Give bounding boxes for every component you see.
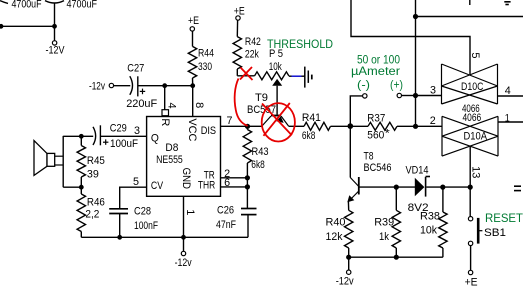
node [245, 184, 250, 189]
wire [236, 20, 238, 36]
node [181, 235, 186, 240]
wiper arrow of P5 [272, 79, 282, 115]
wire (top rail) [416, 16, 523, 18]
wire [289, 125, 305, 127]
svg-text:D10A: D10A [464, 130, 488, 142]
wire [470, 246, 472, 271]
svg-text:4700uF: 4700uF [67, 0, 98, 10]
svg-text:C29: C29 [110, 123, 127, 135]
push button SB1 [468, 217, 482, 246]
terminal +E [190, 27, 194, 31]
resistor R44 [188, 46, 196, 78]
svg-text:R44: R44 [198, 47, 214, 59]
svg-text:560: 560 [367, 130, 384, 142]
wire [331, 125, 351, 127]
node [468, 185, 473, 190]
resistor R39 [392, 187, 400, 257]
wire [402, 95, 416, 97]
wire [114, 85, 131, 87]
terminal -12v [181, 251, 185, 255]
wire (bottom right rail) [349, 256, 443, 258]
resistor R41 [304, 122, 331, 130]
resistor R40 [345, 210, 353, 257]
wire (pin 5) [120, 187, 147, 208]
svg-text:(-): (-) [357, 77, 370, 91]
svg-text:12k: 12k [326, 231, 343, 243]
svg-text:22k: 22k [245, 49, 259, 61]
svg-text:NE555: NE555 [156, 154, 183, 166]
resistor R45 [77, 136, 85, 187]
svg-text:10k: 10k [269, 61, 282, 73]
red X over T9 [262, 103, 292, 136]
svg-text:-12v: -12v [336, 276, 354, 288]
svg-text:-12V: -12V [46, 45, 66, 57]
wire (vertical from top) [415, 0, 417, 126]
svg-text:+E: +E [465, 276, 478, 288]
svg-text:T8: T8 [364, 150, 374, 162]
wire [348, 257, 350, 270]
resistor R38 [439, 187, 447, 257]
svg-text:2: 2 [430, 115, 436, 127]
node [346, 255, 351, 260]
resistor R43 [243, 126, 251, 208]
svg-text:R37: R37 [367, 113, 385, 125]
svg-text:R38: R38 [420, 211, 440, 223]
wire (T8 base) [359, 186, 397, 188]
svg-text:39: 39 [87, 169, 99, 181]
capacitor (cut off, right edge) [514, 186, 521, 190]
ground (earth) [305, 67, 312, 88]
terminal -12V [52, 41, 56, 45]
capacitor C29 [93, 125, 108, 145]
resistor R37 [368, 122, 397, 130]
svg-text:5: 5 [133, 176, 139, 188]
wire [54, 26, 56, 40]
svg-text:5: 5 [469, 52, 481, 58]
svg-text:6k8: 6k8 [302, 130, 316, 142]
wire (GND pin 1) [183, 196, 185, 237]
wire [397, 125, 416, 127]
svg-text:6k8: 6k8 [251, 159, 264, 171]
wire [81, 135, 93, 137]
node [79, 185, 84, 190]
svg-text:8: 8 [193, 102, 205, 108]
svg-text:BC546: BC546 [364, 162, 392, 174]
svg-text:-12v: -12v [89, 80, 105, 92]
svg-text:+E: +E [188, 15, 199, 27]
node [348, 123, 354, 129]
wire (to pin 4) [164, 86, 166, 110]
wire (D10A control, pin 13) [469, 146, 471, 187]
wire [426, 186, 470, 188]
capacitor 4700uF (right) [45, 1, 64, 27]
capacitor C26 [241, 209, 257, 238]
zener diode VD14 [415, 177, 430, 197]
svg-text:D10C: D10C [461, 81, 483, 93]
wire (pin 4) [498, 95, 523, 97]
svg-text:6: 6 [224, 177, 230, 189]
wire [62, 136, 64, 187]
svg-text:Q: Q [151, 133, 159, 145]
wire (pin 2) [221, 177, 248, 179]
node [245, 175, 250, 180]
svg-text:4700uF: 4700uF [12, 0, 42, 10]
svg-text:3: 3 [134, 125, 140, 137]
node [394, 185, 399, 190]
svg-text:VD14: VD14 [406, 165, 429, 177]
svg-text:-12v: -12v [175, 257, 192, 269]
wire (pin 6) [221, 186, 248, 188]
node (left edge) [0, 24, 3, 29]
svg-text:D8: D8 [165, 142, 178, 154]
svg-text:330: 330 [198, 61, 212, 73]
transistor T9 [262, 116, 289, 127]
wire [350, 125, 368, 127]
node [245, 124, 250, 129]
svg-text:R45: R45 [87, 155, 105, 167]
svg-text:R41: R41 [302, 112, 321, 124]
node [79, 134, 84, 139]
capacitor 4700uF (left, partial) [0, 1, 8, 4]
resistor R42 [233, 37, 241, 69]
svg-text:1k: 1k [379, 231, 389, 243]
analog switch D10A [442, 116, 498, 156]
svg-text:VCC: VCC [186, 118, 198, 141]
svg-text:C27: C27 [127, 63, 144, 75]
svg-text:4: 4 [166, 102, 178, 108]
wire (to D10C control) [351, 0, 470, 75]
svg-text:220uF: 220uF [126, 98, 157, 110]
svg-text:CV: CV [151, 180, 164, 192]
svg-text:THRESHOLD: THRESHOLD [267, 37, 333, 51]
wire (pin 7) [221, 125, 248, 127]
wire (pot to ground, partly blue) [289, 75, 292, 77]
wire (pin 1) [498, 121, 523, 123]
svg-text:R46: R46 [87, 196, 105, 208]
wire [192, 78, 194, 86]
svg-text:µAmeter: µAmeter [351, 64, 400, 78]
svg-text:*: * [385, 127, 391, 139]
wire [237, 75, 254, 77]
wire [139, 85, 193, 87]
analog switch D10C [442, 64, 498, 104]
node [413, 124, 418, 129]
capacitor C28 [109, 209, 128, 238]
terminal +E [236, 16, 240, 20]
svg-text:3: 3 [430, 84, 436, 96]
svg-text:4: 4 [505, 85, 511, 97]
svg-text:R: R [159, 118, 171, 126]
svg-text:100uF: 100uF [110, 138, 138, 150]
svg-text:T9: T9 [255, 92, 268, 104]
svg-text:GND: GND [180, 168, 192, 189]
speaker [34, 141, 63, 176]
svg-text:4066: 4066 [463, 112, 482, 124]
red circle (T9 removed) [262, 103, 295, 141]
terminal (+) [397, 93, 401, 97]
node [413, 14, 418, 19]
node [117, 235, 122, 240]
wire [469, 187, 471, 216]
wire (to meter minus) [350, 96, 362, 126]
node [162, 83, 167, 88]
op-amp/timer IC D8 NE555 [147, 117, 221, 197]
wire [0, 25, 55, 27]
resistor R46 [77, 187, 85, 237]
wire (to pin 8 VCC) [192, 86, 194, 117]
svg-text:R40: R40 [326, 217, 346, 229]
transistor T8 [347, 126, 359, 210]
terminal (-) [363, 94, 367, 98]
svg-text:DIS: DIS [201, 125, 216, 137]
node [440, 185, 445, 190]
wire (pin 2) [416, 125, 443, 127]
svg-text:10k: 10k [420, 225, 437, 237]
svg-text:100nF: 100nF [134, 220, 158, 232]
potentiometer P5 [255, 72, 289, 80]
battery mark (cut off) [504, 2, 510, 5]
svg-text:R39: R39 [374, 217, 394, 229]
wire [248, 125, 263, 127]
wire (pin 3) [101, 135, 147, 137]
capacitor C27 [130, 76, 145, 96]
red bypass wire [235, 79, 248, 126]
pin marker R (square pad) [162, 110, 169, 116]
svg-text:1: 1 [184, 209, 196, 215]
svg-text:THR: THR [198, 179, 215, 191]
svg-text:SB1: SB1 [484, 227, 506, 239]
svg-text:C28: C28 [134, 205, 151, 217]
wire [396, 186, 415, 188]
red X (cut mark at R42) [240, 67, 253, 80]
wire [183, 237, 185, 251]
svg-text:R42: R42 [245, 36, 261, 48]
wire [63, 186, 81, 188]
terminal +E [468, 270, 472, 274]
svg-text:C26: C26 [217, 204, 234, 216]
svg-text:7: 7 [227, 115, 233, 127]
svg-text:RESET: RESET [485, 211, 523, 225]
stub wire [469, 0, 471, 5]
svg-text:1: 1 [505, 112, 510, 124]
svg-text:47nF: 47nF [216, 219, 236, 231]
node [413, 93, 418, 98]
svg-text:R43: R43 [252, 146, 269, 158]
wire (pin 3) [416, 95, 442, 97]
wire [236, 69, 238, 76]
wire (bottom rail) [81, 236, 248, 238]
svg-text:2,2: 2,2 [85, 208, 99, 220]
terminal -12v [109, 83, 113, 87]
node [190, 83, 195, 88]
svg-text:(+): (+) [390, 77, 403, 91]
svg-text:13: 13 [469, 166, 481, 178]
node -12V junction [52, 24, 57, 29]
wire [63, 135, 81, 137]
terminal -12v [347, 270, 351, 274]
wire [192, 31, 194, 46]
node [394, 255, 399, 260]
